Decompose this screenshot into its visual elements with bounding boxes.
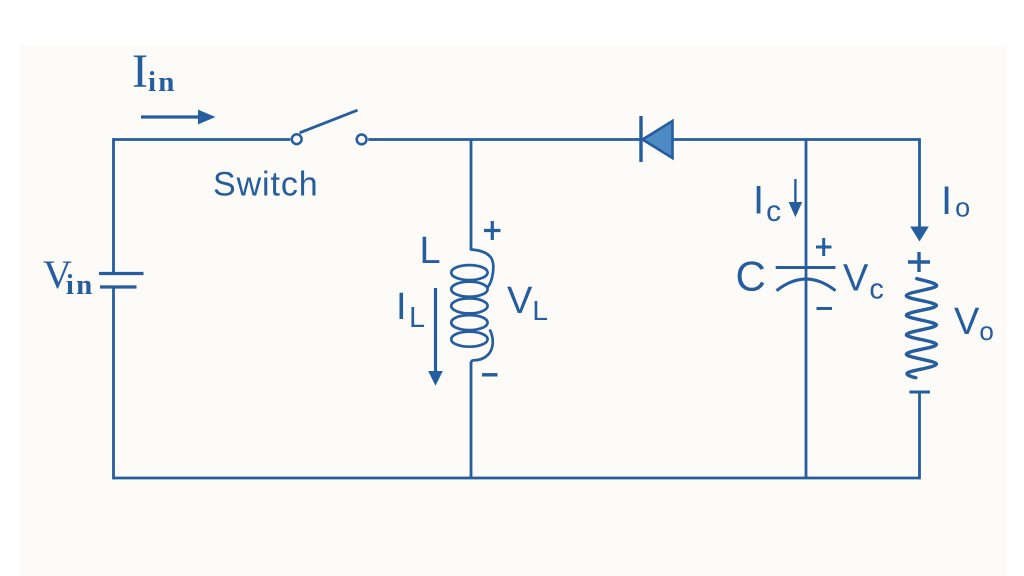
wire bottom [114, 477, 920, 480]
label + inductor [484, 221, 501, 240]
label + resistor [908, 252, 930, 272]
arrow Iin [141, 110, 216, 125]
wire left vertical lower [112, 287, 115, 479]
resistor bottom terminal bar [910, 391, 931, 394]
switch arm [300, 110, 358, 133]
diode D1 triangle [643, 121, 673, 158]
switch right contact circle [357, 135, 367, 145]
switch left contact circle [292, 134, 302, 144]
wire capacitor branch [805, 140, 808, 479]
wire inductor branch upper [470, 140, 473, 251]
wire right vertical lower [918, 392, 921, 480]
wire top-left segment [114, 138, 291, 141]
resistor Vo zigzag [906, 279, 936, 378]
wire inductor branch lower [470, 362, 473, 478]
diode D1 cathode bar [639, 116, 642, 162]
wire right vertical upper [918, 138, 921, 227]
capacitor C top plate [776, 266, 836, 269]
battery V1 top plate [99, 272, 144, 275]
label - inductor [482, 373, 498, 376]
battery V1 bottom plate [100, 285, 137, 288]
capacitor C curved plate [777, 279, 836, 291]
label - capacitor [817, 307, 833, 310]
inductor L coil [451, 250, 493, 365]
label + capacitor [816, 238, 832, 256]
svg-text:L: L [420, 230, 441, 272]
arrow Io [910, 227, 929, 242]
arrow Ic [789, 179, 803, 217]
arrow IL [428, 288, 443, 386]
wire top-right segment [368, 138, 919, 141]
svg-text:Switch: Switch [213, 166, 319, 204]
wire left vertical upper [112, 138, 115, 273]
svg-text:C: C [736, 253, 766, 300]
